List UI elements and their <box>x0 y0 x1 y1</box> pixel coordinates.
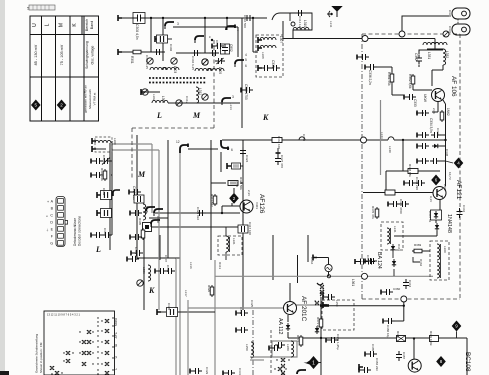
svg-text:K: K <box>262 113 269 122</box>
AC lamp circle <box>325 264 332 271</box>
svg-text:R361 50k: R361 50k <box>387 72 391 86</box>
svg-text:C324: C324 <box>245 155 249 163</box>
switch contact dots <box>51 317 113 374</box>
wire osc rail x211 <box>210 140 212 260</box>
tuning capacitor gang <box>452 8 470 35</box>
resistor R320 <box>210 285 214 297</box>
wire y218 link <box>149 217 168 219</box>
switch contact s2 <box>278 367 282 371</box>
crystal box <box>143 223 152 232</box>
svg-text:+: + <box>47 200 49 204</box>
wire x293 loop down <box>292 30 294 39</box>
transistor AF121 <box>433 187 446 200</box>
osc transformer <box>143 204 146 220</box>
boxed cap C328 <box>157 309 161 315</box>
diode D380 <box>315 326 319 334</box>
svg-text:C331: C331 <box>448 26 452 34</box>
junction dot x403 y306 <box>403 305 405 307</box>
resistor R390 <box>397 336 406 342</box>
resistor R311 <box>213 194 217 206</box>
svg-text:C370: C370 <box>366 255 370 263</box>
wire gray x215 <box>214 260 216 375</box>
diamond 2 in table <box>57 100 67 111</box>
svg-text:Decoder connections: Decoder connections <box>78 216 82 246</box>
svg-text:M: M <box>137 170 146 179</box>
trimmer C312 <box>176 100 182 106</box>
svg-text:UKW: UKW <box>423 94 427 103</box>
chain vertical wire <box>111 141 113 235</box>
capacitor C802 boxed <box>221 44 230 54</box>
transistor AF106 <box>432 89 445 102</box>
capacitor C324 series <box>240 147 246 157</box>
wire x283 down <box>282 21 284 39</box>
svg-text:C317 100: C317 100 <box>248 222 252 235</box>
svg-text:R313: R313 <box>218 262 222 270</box>
svg-text:L310: L310 <box>303 20 307 27</box>
svg-text:D361: D361 <box>397 244 401 252</box>
switch contact s1 <box>281 358 285 362</box>
hook at chain <box>113 190 120 196</box>
boxed capacitor C316 <box>134 195 144 203</box>
boxed diode 1N4148 <box>431 210 442 220</box>
wire AF126 base <box>222 203 240 213</box>
capacitor C380 <box>326 337 338 343</box>
capacitor C384 <box>365 351 377 357</box>
diamond br <box>452 321 462 332</box>
svg-text:1N62: 1N62 <box>446 108 450 116</box>
resistor R367 inline <box>385 190 395 195</box>
trimmer C302 <box>147 58 153 64</box>
transistor AF126 <box>240 200 253 213</box>
capacitor C385 <box>359 367 371 373</box>
contact dots <box>274 359 289 374</box>
svg-text:2,3V: 2,3V <box>247 190 251 196</box>
trimmer C807b <box>202 59 208 65</box>
boxed cap C310a <box>97 210 101 216</box>
svg-text:C384 22n: C384 22n <box>375 358 379 371</box>
svg-text:Dekoderanschlüsse: Dekoderanschlüsse <box>73 218 77 246</box>
svg-text:⏚: ⏚ <box>46 228 49 232</box>
wires to boxes <box>225 227 227 260</box>
svg-text:R301: R301 <box>130 56 134 64</box>
svg-text:C364: C364 <box>310 257 314 265</box>
svg-text:C308 4,5n: C308 4,5n <box>135 24 139 40</box>
svg-text:6: 6 <box>231 148 233 152</box>
svg-text:M: M <box>192 111 201 120</box>
svg-text:L308: L308 <box>261 52 265 59</box>
trimmer k <box>137 280 143 286</box>
svg-text:L311: L311 <box>329 21 333 28</box>
svg-text:R370 47k: R370 47k <box>371 206 375 219</box>
svg-text:C303 6-25: C303 6-25 <box>145 55 149 69</box>
diode D361 <box>391 244 395 252</box>
wire gray y150 <box>112 150 159 310</box>
capacitor C340 <box>404 180 416 186</box>
svg-text:C334: C334 <box>436 128 440 136</box>
wire x403 drop <box>402 140 404 171</box>
capacitor C350 <box>236 310 248 316</box>
dashed 10.7 filter box <box>381 222 403 250</box>
svg-text:G: G <box>50 242 53 246</box>
capacitor C360 <box>381 289 393 295</box>
svg-text:C320 4700: C320 4700 <box>244 84 248 100</box>
svg-text:C327 470: C327 470 <box>280 155 284 168</box>
svg-text:75 - 105 mV: 75 - 105 mV <box>60 44 64 65</box>
capacitor C319 <box>131 250 143 256</box>
contact pair above <box>320 290 324 294</box>
capacitor C361 <box>323 294 335 300</box>
svg-text:C: C <box>50 214 53 218</box>
ratio det coils <box>437 244 440 260</box>
gray loop wire <box>250 341 297 360</box>
antenna connector <box>327 11 332 17</box>
coil L380 <box>291 341 294 357</box>
svg-text:L317: L317 <box>184 290 188 297</box>
node dot <box>221 212 223 214</box>
svg-text:L350: L350 <box>335 300 339 307</box>
diode D362 <box>392 259 396 267</box>
svg-text:C328: C328 <box>167 303 171 311</box>
dashed UKW box left <box>361 34 363 299</box>
capacitor C344 <box>403 279 409 289</box>
svg-text:L380: L380 <box>286 344 290 351</box>
svg-text:3: 3 <box>177 22 179 26</box>
capacitor C304 <box>191 50 201 56</box>
wire AF121 base <box>363 192 433 194</box>
svg-text:L321: L321 <box>232 238 236 245</box>
svg-text:4: 4 <box>245 53 247 57</box>
svg-text:6: 6 <box>245 64 247 68</box>
svg-text:L302: L302 <box>161 96 165 103</box>
svg-text:C329: C329 <box>205 367 209 375</box>
wire y227 row <box>147 226 240 228</box>
wire AA112 <box>288 318 318 338</box>
svg-text:R311 822: R311 822 <box>210 194 214 207</box>
K filter coils L307 L308 <box>258 37 262 43</box>
svg-text:9,1V: 9,1V <box>429 196 433 202</box>
capacitor C323 <box>196 210 206 216</box>
capacitor C338 + diode <box>417 143 429 149</box>
dash-dot divider x253 bottom <box>252 310 254 375</box>
svg-text:VT RM at: VT RM at <box>93 93 97 106</box>
coil L312 <box>196 87 199 103</box>
node dot y140 <box>402 139 404 141</box>
wire top link to loop <box>272 13 290 20</box>
wire x144 osc <box>143 230 145 310</box>
wire x168 black <box>168 140 176 258</box>
svg-text:U: U <box>32 23 38 27</box>
wire x160 osc <box>159 235 161 260</box>
terminal L osc <box>141 89 145 95</box>
capacitor C370 <box>365 258 377 264</box>
switch contacts k3 <box>315 301 319 305</box>
small node on y276 <box>327 275 330 278</box>
wire M row y53 <box>176 18 227 53</box>
svg-text:C347 51: C347 51 <box>428 211 432 223</box>
svg-text:L332: L332 <box>445 51 449 58</box>
svg-text:L300: L300 <box>113 138 117 145</box>
dashed IF transformer box 1 <box>218 236 242 255</box>
wire K feed <box>253 18 258 52</box>
junction dot x414 y338 <box>444 139 446 141</box>
capacitor C313 <box>258 65 262 71</box>
resistor R363 <box>440 110 444 122</box>
resistor R362 <box>411 74 415 86</box>
dashed AM box top <box>132 127 214 129</box>
switch contacts k1 <box>281 364 285 368</box>
wire k osc bottom <box>137 257 180 259</box>
trimmer C303 <box>171 58 177 64</box>
resistor R391 <box>430 336 439 342</box>
capacitor C335b <box>417 132 429 138</box>
coil L305 <box>195 68 211 71</box>
svg-text:R390: R390 <box>396 331 400 339</box>
svg-text:gemessen mit RV an: gemessen mit RV an <box>84 85 88 113</box>
coil L303 <box>150 67 166 70</box>
svg-text:Band: Band <box>90 21 94 29</box>
svg-text:C336 2,2n: C336 2,2n <box>368 70 372 85</box>
transistor hook osc2 <box>146 207 155 214</box>
capacitor C382 <box>275 342 285 348</box>
wire y213 base row <box>155 212 240 214</box>
capacitor C327 <box>275 153 281 165</box>
wire emitter net <box>394 200 440 236</box>
svg-text:C331: C331 <box>238 368 242 375</box>
node circle det out <box>401 296 407 302</box>
svg-text:1N4148: 1N4148 <box>446 214 452 233</box>
capacitor C322 <box>127 256 139 262</box>
svg-text:1: 1 <box>312 360 315 366</box>
svg-text:C302: C302 <box>169 44 173 52</box>
svg-text:Bereich: Bereich <box>85 19 89 31</box>
wire x403 det drop <box>403 299 405 321</box>
resistor R307 <box>141 228 145 240</box>
wire x221 stub <box>220 152 222 172</box>
svg-text:C323 632: C323 632 <box>196 207 200 220</box>
dashed coil box L300 <box>92 137 117 152</box>
boxed cap C309 <box>97 192 101 198</box>
svg-text:L303: L303 <box>173 66 177 73</box>
terminal b <box>359 364 363 370</box>
svg-text:2,06: 2,06 <box>432 108 436 114</box>
wire fm coil drop <box>434 39 436 46</box>
antenna symbol <box>333 7 342 18</box>
svg-text:C301: C301 <box>102 155 106 163</box>
resistor R372 <box>299 335 303 347</box>
capacitor C807 <box>212 43 224 49</box>
node circle y276 feed <box>362 273 368 279</box>
dashed vertical x271 <box>270 330 272 375</box>
wire lamp feed <box>313 258 329 277</box>
trimmer C313b <box>202 94 208 100</box>
svg-text:L: L <box>156 111 162 120</box>
svg-text:L312: L312 <box>198 88 202 95</box>
node circle feedthrough <box>362 36 368 42</box>
wire x273 switch drop <box>272 235 274 280</box>
diamond 4 <box>454 158 464 169</box>
wire gray x180 <box>179 150 181 375</box>
diamond 6 <box>431 175 441 186</box>
trimmer C335 <box>443 31 449 37</box>
resistor R322 <box>228 181 238 186</box>
svg-text:AFC: AFC <box>114 331 118 338</box>
dashed UKW box bottom <box>362 298 460 300</box>
svg-text:L802: L802 <box>443 184 447 191</box>
wire L osc row <box>145 92 242 128</box>
terminal antenna L <box>118 15 122 21</box>
svg-text:AA 112: AA 112 <box>277 318 283 334</box>
svg-text:R306: R306 <box>156 216 160 224</box>
resistor R370 <box>375 207 379 219</box>
capacitor C333 <box>404 94 416 100</box>
svg-text:L302: L302 <box>152 94 156 101</box>
node dot <box>413 337 415 339</box>
capacitor C342 on border <box>457 208 463 218</box>
table col lines <box>42 16 85 121</box>
svg-text:L331: L331 <box>427 52 431 59</box>
transistor hook T301 <box>165 22 174 29</box>
resistor R318 stub <box>227 163 231 169</box>
svg-text:13 12 11 10 9 8 7 6 5 4: 13 12 11 10 9 8 7 6 5 4 3 2 1 <box>47 313 81 317</box>
resistor R369 <box>412 249 424 253</box>
svg-text:3: 3 <box>232 95 234 99</box>
svg-text:C314 12k: C314 12k <box>298 16 302 29</box>
svg-text:D362: D362 <box>419 259 423 267</box>
trimmer C311 <box>142 89 148 95</box>
coil filter L341 <box>387 228 390 244</box>
svg-text:L316: L316 <box>189 262 193 269</box>
svg-text:C341 4700: C341 4700 <box>399 199 403 214</box>
dashed UKW box right <box>459 34 461 299</box>
svg-text:Measured with: Measured with <box>88 89 92 109</box>
svg-text:BC108: BC108 <box>464 352 471 372</box>
wire y306 to detector <box>329 305 404 307</box>
terminal L row <box>118 49 122 55</box>
svg-text:Osc. voltage: Osc. voltage <box>91 45 95 64</box>
svg-text:C325: C325 <box>250 300 254 308</box>
wire AF201C collector/emitter <box>288 283 290 322</box>
wire y183 R322 <box>211 183 243 193</box>
svg-text:C360: C360 <box>302 134 306 142</box>
svg-text:R364 100: R364 100 <box>277 136 281 149</box>
svg-text:C312: C312 <box>185 96 189 104</box>
wire y338 bottom rail <box>318 337 463 339</box>
coil break C360 <box>299 137 305 140</box>
svg-text:C860: C860 <box>235 180 239 188</box>
svg-text:L305: L305 <box>218 67 222 74</box>
wire y140 long <box>222 139 445 141</box>
svg-text:Mono: Mono <box>114 318 118 326</box>
transistor BC108 <box>408 359 421 372</box>
svg-text:10,7V: 10,7V <box>448 172 452 180</box>
capacitor C345 on border <box>355 259 367 265</box>
resistor R301 <box>131 50 143 54</box>
svg-text:R320: R320 <box>207 285 211 293</box>
svg-text:C305: C305 <box>103 228 107 236</box>
svg-text:L: L <box>95 245 101 254</box>
capacitor C318 <box>130 234 142 240</box>
table frame <box>30 16 99 121</box>
coil L332 <box>443 49 446 65</box>
svg-text:AF126: AF126 <box>258 194 265 214</box>
boxed cap C311 <box>155 36 159 42</box>
capacitor C386 <box>383 318 395 324</box>
svg-text:C313: C313 <box>271 60 275 68</box>
coil L350 <box>251 342 254 358</box>
wire x297 drop <box>297 255 299 283</box>
wire gray y276 long <box>215 275 433 277</box>
capacitor pair C307 <box>215 58 225 64</box>
texture small labels <box>145 15 466 375</box>
switch contacts k2 <box>320 285 324 289</box>
capacitor C317b <box>238 225 248 233</box>
svg-text:BA 124: BA 124 <box>376 252 382 269</box>
capacitor C305b <box>91 232 103 238</box>
svg-text:L341: L341 <box>393 226 397 233</box>
transistor hook mixer <box>180 144 188 154</box>
antenna loop L310 <box>290 13 312 30</box>
wire gray y305 <box>296 304 321 306</box>
wire FM rail y38.5 <box>283 38 435 40</box>
wire diamond link <box>446 161 454 163</box>
svg-text:R391 100k: R391 100k <box>429 331 433 346</box>
capacitor C314 <box>295 10 305 16</box>
diode AA112 <box>286 323 290 331</box>
svg-text:R362 3,6k: R362 3,6k <box>408 74 412 89</box>
svg-text:C344: C344 <box>408 280 412 288</box>
capacitor C310 <box>247 15 250 21</box>
wire det net <box>393 251 430 276</box>
wire tuner link <box>402 16 449 34</box>
svg-text:C360: C360 <box>393 287 401 291</box>
coil L306 <box>148 265 151 281</box>
svg-text:C387: C387 <box>402 352 406 360</box>
wire top rail y18 <box>118 17 267 19</box>
scan corner black patch <box>0 371 9 375</box>
svg-text:L360: L360 <box>443 246 447 253</box>
core dots L330 <box>427 49 443 51</box>
transistor hook T303 <box>235 60 244 67</box>
IF coil in dashed box <box>226 236 229 252</box>
resistor R361 <box>390 72 394 84</box>
wire gray x176 <box>175 258 177 375</box>
svg-text:C361 22n: C361 22n <box>321 288 325 301</box>
svg-text:5: 5 <box>245 58 247 62</box>
switch contact grid <box>50 319 109 375</box>
table row lines <box>30 35 99 78</box>
ferrite rod dotted rows <box>149 78 206 83</box>
node circle C329 <box>399 31 405 37</box>
svg-text:K: K <box>148 286 155 295</box>
node circle feed y140 <box>361 137 367 143</box>
svg-text:C380 1,25µ: C380 1,25µ <box>336 334 340 350</box>
svg-text:C385: C385 <box>371 344 375 352</box>
svg-text:L350: L350 <box>245 344 249 351</box>
capacitor C301 <box>153 49 163 55</box>
wire x321 bottom rail <box>320 297 322 375</box>
svg-text:L: L <box>45 23 51 26</box>
capacitor C320 <box>241 87 253 93</box>
svg-text:C807: C807 <box>215 40 219 48</box>
wire gray y144 <box>112 144 152 213</box>
capacitor C315 <box>129 189 141 195</box>
svg-text:3: 3 <box>237 28 239 32</box>
svg-text:C342: C342 <box>462 205 466 213</box>
svg-text:L361: L361 <box>351 279 355 286</box>
wire af121 rail <box>445 104 447 186</box>
terminal lamp <box>313 255 317 261</box>
dashed ratio det box <box>430 241 449 280</box>
